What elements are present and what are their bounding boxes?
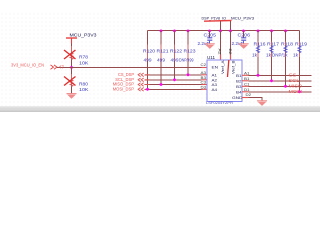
wire VrefB (230, 31, 232, 55)
IC U11 body (207, 60, 242, 102)
pin A3 red stub (202, 84, 208, 86)
node junction R121-A3 (160, 83, 163, 86)
pin GND red stub (242, 97, 249, 99)
pin B3 red stub (242, 85, 249, 87)
node junction R122-A2 (173, 78, 176, 81)
svg-text:10K: 10K (79, 60, 89, 65)
wire A net MISO_DSP (145, 84, 202, 86)
node junction R120-A4 (146, 88, 149, 91)
node junction rail VrefA (219, 30, 222, 33)
wire B3 net (249, 85, 312, 87)
svg-text:Vref_B: Vref_B (231, 60, 235, 74)
resistor R122 (174, 31, 176, 80)
node junction R117-B2 (270, 79, 273, 82)
svg-text:C205: C205 (204, 32, 217, 37)
node junction rail R121 (160, 30, 163, 33)
node junction rail R122 (173, 30, 176, 33)
svg-text:B2: B2 (228, 49, 232, 55)
svg-text:C2: C2 (201, 63, 207, 67)
resistor R123 (187, 31, 189, 75)
resistor R121 (160, 31, 162, 85)
wire R80 down (71, 67, 73, 94)
svg-text:B1: B1 (236, 74, 242, 78)
node junction rail C205 (208, 30, 211, 33)
wire A net MISO_DSP red start (145, 84, 150, 86)
DNP X over R78 (64, 50, 76, 59)
svg-text:U11: U11 (207, 55, 216, 60)
sheet bottom gray band (0, 106, 320, 107)
wire MCU stem (230, 21, 232, 31)
svg-text:R80: R80 (79, 82, 89, 87)
pin A2 red stub (202, 79, 208, 81)
svg-text:10K: 10K (79, 87, 89, 92)
svg-text:47: 47 (59, 64, 65, 69)
node junction rail C206 (242, 30, 245, 33)
svg-text:R116: R116 (254, 42, 267, 47)
svg-text:D1: D1 (244, 88, 250, 92)
pin A1 red stub (202, 74, 208, 76)
svg-text:B3: B3 (236, 85, 242, 89)
ground U11 (257, 100, 267, 102)
svg-text:A3: A3 (201, 71, 207, 75)
svg-text:R120: R120 (143, 49, 156, 54)
svg-text:SCL: SCL (289, 78, 301, 83)
wire A net MOSI_DSP (145, 88, 202, 90)
node junction R119-B4 (298, 90, 301, 93)
svg-text:C206: C206 (238, 32, 251, 37)
svg-text:Vref_A: Vref_A (221, 60, 225, 74)
resistor R120 (147, 31, 149, 90)
node junction R116-B1 (257, 74, 260, 77)
svg-text:A2: A2 (218, 49, 222, 55)
wire A net CS_DSP (145, 74, 202, 76)
wire EN net (57, 67, 202, 69)
svg-text:A3: A3 (212, 83, 218, 87)
svg-text:EN: EN (212, 66, 219, 70)
svg-text:B1: B1 (244, 77, 250, 81)
pin VrefB red stub (230, 55, 232, 61)
pin B4 red stub (242, 91, 249, 93)
svg-text:DNP/1k: DNP/1k (272, 53, 288, 58)
node junction rail R123 (187, 30, 190, 33)
svg-text:A1: A1 (212, 73, 218, 77)
svg-text:D3: D3 (201, 85, 207, 89)
svg-text:B3: B3 (201, 76, 207, 80)
svg-text:A2: A2 (212, 78, 218, 82)
svg-text:DNP/499: DNP/499 (179, 57, 194, 62)
pin A4 red stub (202, 88, 208, 90)
resistor R117 (271, 31, 273, 81)
svg-text:A1: A1 (244, 71, 250, 75)
svg-text:CS: CS (289, 73, 297, 78)
svg-text:LSF0204YZPR: LSF0204YZPR (206, 100, 233, 105)
wire B1 net (249, 74, 312, 76)
resistor R78 (71, 46, 73, 53)
DNP slash inside U11 (228, 60, 229, 77)
power port bar (204, 20, 232, 23)
pin VrefA red stub (220, 55, 222, 61)
wire A net MOSI_DSP red start (145, 88, 150, 90)
wire DSP stem (220, 21, 222, 31)
pin EN red stub (202, 67, 208, 69)
capacitor C205 (209, 31, 211, 38)
node junction rail R117 (270, 30, 273, 33)
svg-text:MISO: MISO (289, 84, 303, 89)
resistor R80 (71, 74, 73, 80)
svg-text:MCU_P3V3: MCU_P3V3 (231, 15, 254, 20)
pin B1 red stub (242, 74, 249, 76)
resistor R116 (257, 31, 259, 76)
svg-text:A4: A4 (212, 88, 218, 92)
wire VrefA (220, 31, 222, 55)
wire B4 net (249, 91, 312, 93)
node junction R123-A1 (187, 73, 190, 76)
svg-text:MOSI: MOSI (289, 89, 303, 94)
wire A net CS_DSP red start (145, 74, 150, 76)
wire B2 net (249, 80, 312, 82)
resistor R119 (299, 31, 301, 92)
node junction EN R78 R80 (70, 66, 73, 69)
svg-text:R117: R117 (267, 42, 280, 47)
svg-text:R119: R119 (295, 42, 308, 47)
svg-text:MOSI_DSP: MOSI_DSP (113, 87, 134, 92)
wire GND net (249, 98, 263, 101)
pin B2 red stub (242, 80, 249, 82)
node junction rail R116 (257, 30, 260, 33)
svg-text:B2: B2 (236, 79, 242, 83)
ground C206 (239, 43, 249, 45)
resistor R118 (285, 31, 287, 87)
svg-text:MCU_P3V3: MCU_P3V3 (70, 32, 98, 37)
ground R80 (67, 93, 77, 95)
svg-text:C3: C3 (201, 81, 207, 85)
grid dots (0, 11, 320, 106)
svg-text:D2: D2 (246, 93, 252, 97)
svg-text:C1: C1 (244, 82, 250, 86)
DNP X over R80 (64, 77, 76, 86)
svg-text:DSP_P1V8_IO_: DSP_P1V8_IO_ (202, 15, 229, 20)
svg-text:R123: R123 (184, 49, 197, 54)
node junction rail VrefB (229, 30, 232, 33)
wire A net SCL_DSP red start (145, 79, 150, 81)
svg-text:499: 499 (144, 57, 153, 62)
svg-text:GND: GND (232, 96, 243, 100)
wire MCU_P3V3 down (71, 44, 73, 68)
svg-text:R122: R122 (170, 49, 183, 54)
ground C205 (205, 43, 215, 45)
svg-text:R121: R121 (157, 49, 170, 54)
svg-text:499: 499 (171, 57, 180, 62)
svg-text:R118: R118 (281, 42, 294, 47)
node junction rail R118 (284, 30, 287, 33)
svg-text:R78: R78 (79, 55, 89, 60)
capacitor C206 (243, 31, 245, 38)
svg-text:3V3_MCU_IO_EN: 3V3_MCU_IO_EN (11, 63, 44, 68)
wire A net SCL_DSP (145, 79, 202, 81)
wire top rail (148, 30, 300, 32)
svg-text:B4: B4 (236, 90, 242, 94)
node junction R118-B3 (284, 85, 287, 88)
svg-text:499: 499 (157, 57, 166, 62)
